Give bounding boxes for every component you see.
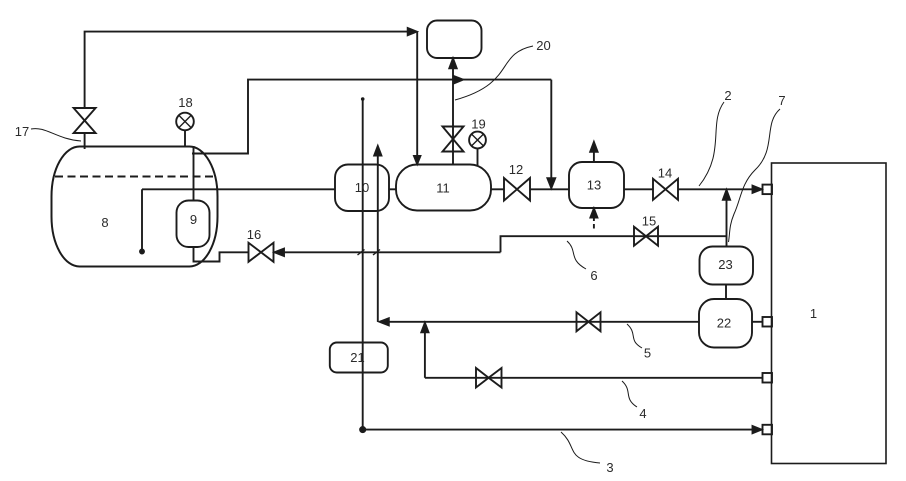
- vent arrow on top of 13: [590, 142, 597, 162]
- wire 13 to valve 14: [624, 188, 653, 190]
- wire 23 to 22: [725, 285, 727, 300]
- liquid level (dashed): [55, 176, 214, 178]
- svg-text:4: 4: [639, 406, 646, 421]
- wire pipe from tank top into vessel 9: [193, 146, 195, 201]
- unit 1 (big box): [772, 163, 887, 464]
- wire valve 14 to unit 1: [678, 188, 753, 190]
- svg-text:16: 16: [247, 227, 261, 242]
- port at line 3: [763, 425, 773, 435]
- wire drop into main line: [550, 80, 552, 180]
- svg-text:2: 2: [724, 88, 731, 103]
- svg-text:1: 1: [810, 306, 817, 321]
- svg-text:22: 22: [717, 316, 731, 331]
- valve on line 5: [577, 312, 601, 331]
- svg-text:14: 14: [658, 166, 672, 181]
- svg-text:5: 5: [644, 346, 651, 361]
- component 20: [427, 21, 482, 59]
- tank 8: [52, 147, 218, 267]
- wire return line to tank: [284, 251, 501, 253]
- svg-text:15: 15: [642, 214, 656, 229]
- wire 11 to valve 12: [491, 188, 504, 190]
- vertical line B with up arrow: [374, 146, 381, 322]
- leader 4: [622, 381, 637, 407]
- line 4 with valve: [421, 323, 762, 378]
- svg-text:8: 8: [101, 215, 108, 230]
- leader 5: [627, 324, 642, 348]
- port at line 4: [763, 373, 773, 383]
- arrow on vapor line: [454, 76, 463, 83]
- svg-text:21: 21: [350, 350, 364, 365]
- component 22: [699, 299, 752, 348]
- component 11: [396, 165, 491, 211]
- line 3 bottom: [360, 426, 761, 433]
- arrow into valve 16: [275, 249, 285, 256]
- crossing jog marks: [358, 250, 381, 256]
- component 23: [700, 247, 754, 285]
- wire riser to line 6: [501, 236, 728, 252]
- sensor 18: [176, 113, 194, 147]
- valve 17: [74, 108, 96, 149]
- svg-text:6: 6: [590, 268, 597, 283]
- svg-text:9: 9: [190, 212, 197, 227]
- arrow down into main line: [547, 178, 555, 188]
- component 10: [335, 165, 389, 212]
- arrow stub under 13: [590, 209, 597, 230]
- vessel 9: [177, 201, 210, 248]
- vertical line A through 10 and 21: [362, 98, 364, 430]
- wire top line from valve 17 to drop into vessel 11: [85, 32, 414, 108]
- valve 19: [443, 127, 464, 152]
- port at line from 22: [763, 317, 773, 327]
- leader lines: [31, 46, 780, 463]
- line 5: from line B to vessel 22: [380, 318, 700, 325]
- dip tube in tank 8: [140, 189, 144, 253]
- leader 2: [699, 102, 724, 186]
- sensor 19: [469, 132, 486, 165]
- wire valve 12 to 13: [530, 188, 569, 190]
- svg-text:12: 12: [509, 162, 523, 177]
- leader 17: [31, 129, 81, 141]
- component 21: [330, 343, 388, 373]
- svg-text:10: 10: [355, 180, 369, 195]
- leader 6: [567, 241, 586, 269]
- svg-text:20: 20: [536, 38, 550, 53]
- svg-text:19: 19: [471, 117, 485, 132]
- arrow into port: [753, 186, 762, 193]
- wire from 11 up to 20 through valve 19: [452, 67, 454, 165]
- leader 20: [455, 46, 533, 100]
- wire drain from vessel 9 to valve 16: [194, 247, 249, 262]
- wire drop pipe into vessel 11: [416, 32, 418, 163]
- arrow right at top line corner: [408, 28, 417, 35]
- svg-text:3: 3: [606, 460, 613, 475]
- valve 12: [504, 178, 530, 201]
- svg-text:13: 13: [587, 178, 601, 193]
- svg-text:11: 11: [436, 181, 450, 196]
- svg-text:17: 17: [15, 124, 29, 139]
- valve 14: [653, 179, 678, 200]
- component 13: [569, 162, 624, 208]
- svg-text:18: 18: [178, 95, 192, 110]
- leader 7: [729, 109, 781, 242]
- valve 16: [249, 243, 274, 262]
- svg-text:23: 23: [718, 257, 732, 272]
- valve on line 4: [476, 368, 502, 388]
- arrow down into vessel 11: [414, 156, 420, 164]
- arrow up into 20: [449, 59, 456, 69]
- leader 3: [561, 432, 600, 463]
- wire main suction line from dip tube to pump 10: [142, 188, 335, 190]
- valve 15: [634, 227, 658, 246]
- wire 22 to port: [752, 321, 763, 323]
- svg-text:7: 7: [778, 93, 785, 108]
- wire riser from main line down to 23: [723, 190, 730, 247]
- wire 10 to 11: [389, 188, 396, 190]
- port at main line: [763, 185, 773, 195]
- wire vapor line from vessel 9 up and over to drop: [192, 80, 551, 154]
